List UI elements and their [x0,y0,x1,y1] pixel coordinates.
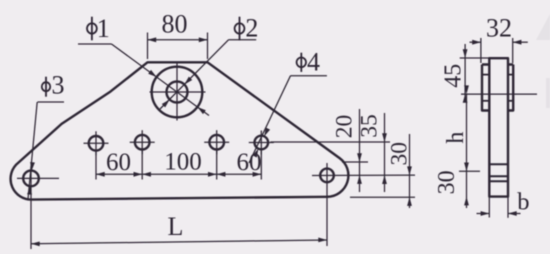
chain dim extension line hole1 [95,151,97,180]
small hole 3 [209,135,224,150]
dim 35 arrow up at centerline [382,175,387,184]
phi4 leader shoulder [291,75,327,77]
chain dim extension line hole2 [141,151,143,180]
phi1 arrowhead lower-right [197,107,205,114]
dim 20 arrow down at y162 [357,153,362,162]
big hole inner circle phi2 [167,82,188,103]
label phi4 [297,47,320,76]
svg-text:60: 60 [106,149,131,176]
hole-row extension line to 35 dim [271,141,391,143]
label phi3 [42,71,65,100]
dim 30 arrow up at bottom edge [407,197,412,206]
dim 45 arrow up at axis [463,94,468,103]
right corner hole [320,169,334,183]
big hole vertical centerline [176,64,178,121]
svg-text:h: h [443,132,469,144]
phi2 arrowhead lower-left [162,100,170,108]
h dim lower extension line [459,170,480,172]
dim L left arrowhead [31,242,40,247]
side view hole edge tick upper [482,74,489,76]
chain dim arrowheads at hole3 [208,172,217,177]
small hole 4 crosshair [249,142,274,144]
side view hole axis centerline [461,93,537,95]
dim 32 line right segment [513,41,528,43]
chain dim arrowhead at hole4 (right) [253,172,262,177]
small hole 1 [89,136,104,151]
bottom edge extension line right [350,196,415,198]
dim 32 right arrowhead [513,40,522,45]
side view interior line 2 [489,175,508,177]
dim 20 line [359,109,361,192]
small hole 1 crosshair [84,142,109,144]
big hole horizontal centerline [150,91,206,93]
b dim line left segment [477,213,490,215]
left corner hole horizontal centerline [17,177,59,179]
chain dim extension line hole4 [260,150,262,180]
dim 80 right extension line [207,33,209,60]
right corner hole horizontal centerline extended to 30-dim [312,174,415,176]
label phi1 [87,14,110,43]
side view boss left wall [482,65,489,111]
big hole outer circle phi1 [152,67,203,118]
phi2 leader shoulder [229,39,257,41]
side view hole edge tick lower [482,100,489,102]
h/30 shared dimension line [466,94,468,208]
svg-text:80: 80 [162,9,188,38]
phi3 leader line [28,102,37,199]
dim L right arrowhead [318,238,327,243]
b dim right arrowhead [508,211,517,216]
side view boss right wall [508,65,513,111]
phi4 leader/diameter line [249,76,291,163]
dim 45 arrow down at top [463,49,468,58]
svg-text:3: 3 [52,71,65,100]
svg-text:20: 20 [332,115,358,139]
b dim left arrowhead [481,211,490,216]
dim 80 left extension line [147,33,149,60]
b dim right extension line [507,197,509,218]
dim 35 arrow down at hole row [382,133,387,142]
left corner hole vertical centerline / L extension [30,166,32,249]
20 dim upper extension line [342,161,368,163]
small hole 4 [254,136,268,150]
label phi2 [235,13,259,42]
scan artifact right edge [546,78,550,108]
phi2 arrowhead upper-right [184,77,192,85]
30 dim side arrow up at bottom [464,197,469,206]
b dim line right segment [508,213,521,215]
side view interior line 3 [489,180,508,182]
small hole 3 crosshair [204,141,229,143]
svg-text:100: 100 [164,149,202,176]
dim L dimension line [31,240,327,244]
dim 32 left extension line [480,38,482,63]
phi1 arrowhead upper-left [148,70,156,77]
svg-text:35: 35 [357,114,383,138]
phi3 leader shoulder [38,101,65,103]
dim 32 left arrowhead [472,40,481,45]
dim 20 arrow up at centerline [357,175,362,184]
h dim arrow up at axis [464,85,469,94]
top edge extension line (side view) [460,57,490,59]
phi4 arrowhead upper-right [264,128,270,137]
right corner hole vertical centerline / L extension [326,163,328,246]
dim 80 right arrowhead [199,37,208,42]
svg-text:L: L [168,212,184,241]
small hole 2 [135,135,150,150]
left corner hole [23,171,39,187]
b dim left extension line [488,197,490,218]
svg-text:b: b [517,188,529,215]
chain dimension line [96,173,261,175]
svg-text:4: 4 [307,47,320,76]
dim 32 line left segment [470,41,481,43]
dim 30 arrow down at centerline [407,166,412,175]
h dim arrow down at y171 [464,163,469,172]
phi1 leader shoulder [78,43,112,45]
dim 45 line [464,44,466,101]
dim 30 line (main view) [409,134,411,208]
phi1 leader/diameter line [112,44,210,116]
chain dim extension line hole3 [216,151,218,180]
svg-text:32: 32 [486,14,512,43]
side view plate outline [489,58,508,196]
svg-text:30: 30 [434,170,460,194]
chain dim arrowheads at hole2 [134,172,143,177]
svg-text:2: 2 [245,13,258,42]
dim 35 line [384,113,386,192]
dim 32 right extension line [512,38,514,63]
svg-text:45: 45 [441,64,467,88]
phi3 arrowhead bottom [27,186,32,195]
svg-text:30: 30 [387,142,413,166]
scan artifact streak top-right [536,14,550,40]
dim 80 left arrowhead [148,37,157,42]
small hole 2 crosshair [130,141,155,143]
dim 80 dimension line [148,39,208,41]
phi4 arrowhead lower-left [253,149,259,158]
side view interior line 1 [489,163,508,165]
phi3 arrowhead top [30,162,35,171]
chain dim arrowhead at hole1 (left) [96,172,105,177]
svg-text:1: 1 [97,14,110,43]
phi2 leader/diameter line [160,40,229,109]
plate outline (front view) [11,62,349,199]
